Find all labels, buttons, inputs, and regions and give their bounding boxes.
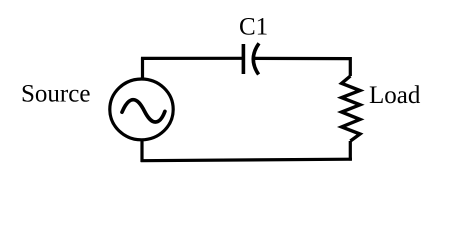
wire: top rail left segment (corner to C1 left plate) xyxy=(141,57,242,60)
svg-text:C1: C1 xyxy=(239,14,268,41)
wire: bottom-left vertical (bottom rail to source bottom) xyxy=(140,139,143,163)
wire: bottom-right vertical lead (resistor to bottom rail) xyxy=(349,141,352,161)
wire: top-left vertical (source top to top rail) xyxy=(141,58,144,81)
svg-text:Source: Source xyxy=(21,81,90,108)
capacitor C1 left plate xyxy=(242,44,246,74)
wire: top rail right segment (C1 right plate to top-right corner) xyxy=(254,57,350,60)
wire: top-right vertical lead into resistor xyxy=(349,57,352,76)
capacitor C1 right plate (curved) xyxy=(253,43,259,74)
svg-text:Load: Load xyxy=(369,82,421,109)
AC source circle xyxy=(110,79,173,140)
resistor Load (zigzag) xyxy=(342,76,360,141)
AC source sine wave xyxy=(122,100,165,122)
wire: bottom rail xyxy=(141,159,352,161)
